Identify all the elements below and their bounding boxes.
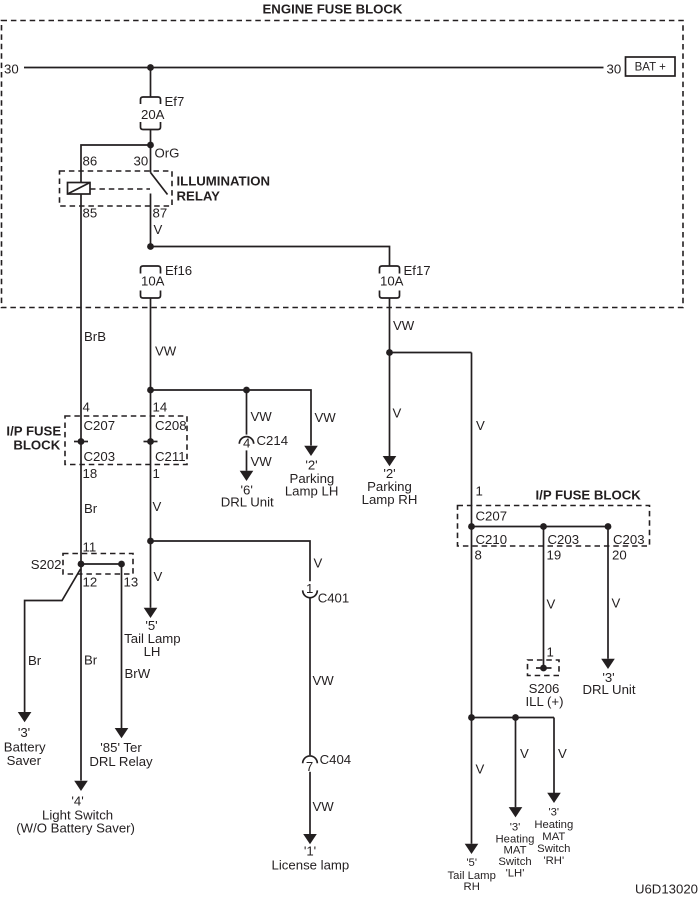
wire V label C401 upper [314,556,323,571]
svg-text:85: 85 [83,206,98,221]
pin 1 label S206 [547,645,554,660]
svg-text:8: 8 [475,548,482,563]
connector C401 [303,581,350,606]
parking lamp RH label [362,466,418,507]
wire VW label C214 upper [251,409,273,424]
junction bus to Ef7 [147,64,154,71]
connector junction C203 19 [540,523,579,547]
wire to DRL unit 3 [607,527,609,659]
heating mat switch LH label [496,821,535,879]
wire BrB label [84,329,106,344]
svg-text:C214: C214 [257,433,289,448]
svg-text:BrB: BrB [84,329,106,344]
wire Ef17 down [389,298,391,456]
svg-text:V: V [154,569,163,584]
wire license lamp bus [151,541,311,581]
pin 11 label [83,540,97,555]
wire right bus [390,352,472,354]
svg-text:Ef7: Ef7 [165,94,185,109]
wire VW label license [313,799,335,814]
pin 19 label [547,548,562,563]
svg-text:RELAY: RELAY [177,189,221,204]
connector junction C207/C210 [468,523,475,530]
svg-text:V: V [612,596,621,611]
svg-text:13: 13 [124,575,139,590]
svg-text:10A: 10A [141,274,165,289]
svg-text:Switch: Switch [498,856,531,868]
splice S206 boundary [528,660,560,676]
connector C207 C203 labels [84,418,116,464]
wire heating bus [472,717,555,719]
svg-text:Lamp LH: Lamp LH [285,483,339,498]
svg-text:Br: Br [84,501,98,516]
license lamp label [272,843,350,872]
svg-text:'LH': 'LH' [506,867,525,879]
wire Br label battery saver [28,653,42,668]
wire Br label light switch [84,653,98,668]
pin 85 label [83,206,98,221]
svg-text:C404: C404 [320,752,352,767]
wire V label parking RH [393,406,402,421]
light switch label [16,794,135,836]
ip fuse block name right [536,488,642,503]
wire node OrG to relay coil branch [81,145,151,183]
splice S202 boundary [31,554,133,575]
svg-text:S202: S202 [31,557,62,572]
svg-text:30: 30 [134,154,149,169]
fuse Ef17 10A [380,263,431,298]
svg-text:C207: C207 [84,418,116,433]
svg-text:C401: C401 [318,591,350,606]
svg-text:19: 19 [547,548,562,563]
svg-text:'RH': 'RH' [543,855,564,867]
wire S202 to DRL relay [121,564,123,728]
svg-text:DRL Unit: DRL Unit [582,682,635,697]
tail lamp RH label [448,857,496,893]
svg-text:'1': '1' [304,843,316,858]
svg-text:VW: VW [315,410,337,425]
svg-text:7: 7 [306,759,313,774]
svg-text:C203: C203 [613,532,645,547]
heating mat switch RH label [534,807,573,868]
svg-text:ILLUMINATION: ILLUMINATION [177,174,271,189]
wire Ef16 down long run [150,298,152,608]
pin 1 label [153,466,160,481]
svg-text:RH: RH [464,881,480,893]
engine fuse block title [263,2,403,17]
wire right long run [471,353,473,844]
svg-text:Heating: Heating [534,819,573,831]
ip fuse block name left [6,424,61,453]
svg-text:C208: C208 [155,418,187,433]
battery saver label [4,725,46,768]
svg-text:30: 30 [607,62,622,77]
svg-text:14: 14 [153,400,168,415]
wire 87 node to Ef17 [151,247,390,266]
svg-text:V: V [547,597,556,612]
ip fuse block boundary right [458,506,650,547]
svg-text:'3': '3' [18,725,30,740]
connector C214 [239,433,288,451]
svg-text:MAT: MAT [542,831,565,843]
drawing number U6D13020 [635,882,698,897]
svg-text:Saver: Saver [7,753,42,768]
junction 87 feed [147,243,154,250]
terminal 30 label left [4,62,19,77]
svg-text:4: 4 [243,436,250,451]
wire VW label Ef17 [393,318,415,333]
wire V label below 87 [154,222,163,237]
arrow to license lamp [303,834,317,844]
relay coil [68,183,91,195]
junction license branch [147,538,154,545]
wire V label mat RH [558,746,567,761]
svg-text:86: 86 [83,154,98,169]
pin 87 label [153,206,168,221]
svg-text:VW: VW [393,318,415,333]
svg-text:'5': '5' [466,857,477,869]
wire bus to fuse Ef7 [150,68,152,97]
fuse Ef7 20A [141,94,185,130]
wire V label right upper [476,418,485,433]
svg-text:C207: C207 [476,509,508,524]
pin 1 label right ip block [476,484,483,499]
svg-text:I/P FUSE BLOCK: I/P FUSE BLOCK [536,488,642,503]
svg-text:VW: VW [313,799,335,814]
wire S202 link [81,563,122,565]
svg-text:V: V [153,499,162,514]
svg-text:License lamp: License lamp [272,857,350,872]
svg-text:'85' Ter: '85' Ter [100,740,142,755]
connector junction C208/C211 [144,438,158,445]
splice S202 junction left [78,561,85,568]
arrow to heating mat switch LH [509,807,523,817]
arrow to tail lamp LH [144,608,158,618]
svg-text:'3': '3' [548,807,559,819]
wire ip block bus [472,526,609,528]
svg-text:Ef17: Ef17 [404,263,431,278]
connector C208 C211 labels [155,418,187,464]
relay name label [177,174,271,204]
junction heating bus mid [512,714,519,721]
svg-text:30: 30 [4,62,19,77]
junction parking branch [147,387,154,394]
pin 14 label [153,400,168,415]
pin 4 label left ip block [83,400,90,415]
svg-text:V: V [476,762,485,777]
wire VW label C214 lower [251,454,273,469]
svg-text:U6D13020: U6D13020 [635,882,698,897]
svg-text:Lamp RH: Lamp RH [362,492,418,507]
svg-text:VW: VW [251,454,273,469]
svg-text:V: V [476,418,485,433]
svg-text:1: 1 [476,484,483,499]
battery BAT + [626,57,676,76]
wire V label below junction [154,569,163,584]
svg-text:Br: Br [28,653,42,668]
relay mechanical link [90,188,150,190]
wire 30 into relay switch [150,145,152,173]
connector junction C203 20 [605,523,645,547]
DRL relay 85 label [89,740,153,769]
svg-text:VW: VW [313,673,335,688]
svg-text:1: 1 [306,581,313,596]
svg-text:1: 1 [153,466,160,481]
engine fuse block boundary [2,21,684,308]
wire V label tail RH [476,762,485,777]
splice S202 junction right [118,561,125,568]
wire VW label parking LH [315,410,337,425]
splice S206 junction [536,665,552,672]
wire to heating mat switch RH [553,718,555,794]
pin 12 label [83,575,98,590]
svg-text:'4': '4' [71,794,83,809]
arrow to battery saver [18,712,32,722]
arrow to DRL relay 85 [115,728,129,738]
svg-text:VW: VW [251,409,273,424]
svg-text:BrW: BrW [125,666,151,681]
arrow to tail lamp RH [465,844,479,854]
svg-text:1: 1 [547,645,554,660]
svg-text:87: 87 [153,206,168,221]
svg-text:V: V [558,746,567,761]
wire parking lamp LH bus [151,390,312,446]
svg-text:'3': '3' [510,821,521,833]
svg-text:I/P FUSE: I/P FUSE [6,424,61,439]
svg-text:C203: C203 [84,449,116,464]
wire V label tail lamp feed [153,499,162,514]
svg-text:DRL Unit: DRL Unit [221,494,274,509]
pin 86 label [83,154,98,169]
wire V label S206 [547,597,556,612]
wire 30 bus [24,67,604,69]
pin 18 label [83,466,98,481]
junction right bus [386,349,393,356]
connector C404 [303,752,351,774]
arrow to DRL unit 6 [240,471,254,481]
wire C214 to DRL unit [246,450,248,470]
svg-text:10A: 10A [380,274,404,289]
svg-text:ENGINE FUSE BLOCK: ENGINE FUSE BLOCK [263,2,403,17]
svg-text:DRL Relay: DRL Relay [89,754,153,769]
wire V label DRL unit [612,596,621,611]
wire Ef7 to node OrG [150,130,152,146]
svg-text:Ef16: Ef16 [165,263,192,278]
svg-text:(W/O Battery Saver): (W/O Battery Saver) [16,821,135,836]
svg-text:C211: C211 [155,449,186,464]
fuse Ef16 10A [141,263,193,298]
node OrG junction [147,142,179,161]
wire to S206 [543,527,545,669]
pin 13 label [124,575,139,590]
svg-text:12: 12 [83,575,98,590]
arrow to parking lamp LH [304,446,318,456]
svg-text:OrG: OrG [155,146,180,161]
wire Br label [84,501,98,516]
wire to heating mat switch LH [515,718,517,808]
svg-text:Tail Lamp: Tail Lamp [448,870,496,882]
wire VW label below Ef16 [155,344,177,359]
junction C214 branch [243,387,250,394]
wire BrW label [125,666,151,681]
svg-text:MAT: MAT [503,845,526,857]
DRL unit 3 label [582,670,635,697]
arrow to heating mat switch RH [547,793,561,803]
svg-text:V: V [154,222,163,237]
junction heating bus left [468,714,475,721]
arrow to DRL unit 3 [601,659,615,669]
splice S206 label [526,681,564,709]
svg-text:4: 4 [83,400,90,415]
connector junction C207/C203 [74,438,88,445]
wire V label mat LH [520,746,529,761]
svg-text:20A: 20A [141,107,165,122]
relay switch blade [151,173,168,195]
connector C207 C210 labels right [476,509,508,548]
arrow to parking lamp RH [383,456,397,466]
illumination relay boundary [60,171,173,206]
svg-text:VW: VW [155,344,177,359]
svg-text:V: V [393,406,402,421]
svg-text:20: 20 [612,548,627,563]
tail lamp LH label [124,618,180,659]
wire 87 output [150,194,152,247]
pin 30 label [134,154,149,169]
terminal 30 label right [607,62,622,77]
wire battery saver run [25,569,81,712]
wire relay coil 85 down long run [80,194,82,781]
svg-text:C203: C203 [548,532,580,547]
pin 8 label [475,548,482,563]
svg-text:18: 18 [83,466,98,481]
wire C214 drop [246,390,248,435]
DRL unit 6 label [221,483,274,510]
svg-text:BLOCK: BLOCK [13,438,60,453]
svg-text:11: 11 [83,540,97,555]
parking lamp LH label [285,458,339,499]
wire VW label mid license [313,673,335,688]
wire C401 to C404 [309,598,311,755]
wire C404 to license lamp [309,772,311,834]
svg-text:C210: C210 [476,532,508,547]
svg-text:Switch: Switch [537,843,570,855]
arrow to light switch [74,781,88,791]
svg-text:BAT +: BAT + [635,62,666,74]
ip fuse block boundary left [65,416,187,465]
svg-text:Br: Br [84,653,98,668]
pin 20 label [612,548,627,563]
svg-text:LH: LH [144,644,161,659]
svg-text:ILL (+): ILL (+) [526,694,564,709]
svg-text:V: V [520,746,529,761]
svg-text:V: V [314,556,323,571]
